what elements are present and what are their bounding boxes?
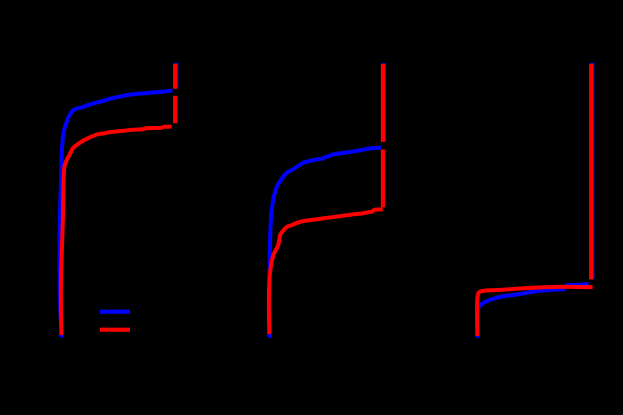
legend blue key line xyxy=(100,310,130,314)
step line 1 blue underlay xyxy=(174,63,178,89)
step line 2 (red vertical, lower segment) xyxy=(381,150,385,208)
step line 2 (red vertical, upper segment) xyxy=(381,64,385,142)
step line 3 (red vertical) xyxy=(589,64,593,280)
step line 1 (red vertical, upper segment) xyxy=(173,64,177,89)
legend red key line xyxy=(100,328,130,332)
step line 2 blue underlay xyxy=(382,63,386,142)
panel 3 red desorption curve xyxy=(477,287,592,336)
panel 2 blue adsorption curve xyxy=(269,148,381,338)
panel 1 blue adsorption curve xyxy=(59,91,172,338)
panel 3 blue adsorption curve xyxy=(477,284,588,338)
step line 3 blue underlay xyxy=(590,63,594,280)
panel 1 red desorption curve xyxy=(61,127,172,335)
panel 2 red desorption curve xyxy=(269,209,383,334)
step line 1 (red vertical, lower segment) xyxy=(173,96,177,123)
